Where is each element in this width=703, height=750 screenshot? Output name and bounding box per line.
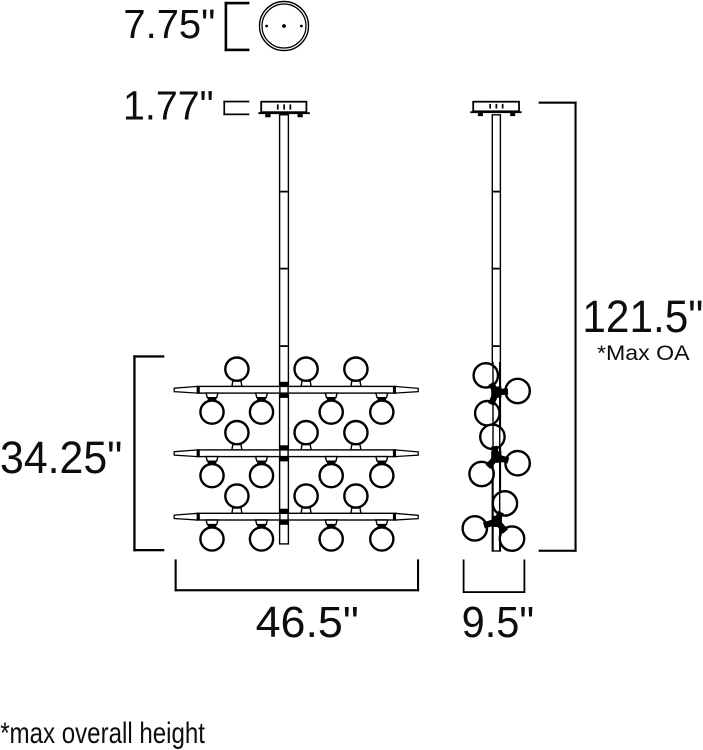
globe above tier 3 #1: [225, 484, 248, 507]
globe socket below tier 1 #2: [256, 393, 268, 398]
side globe cluster 2 #2: [505, 451, 529, 475]
globe below tier 1 #2: [250, 401, 273, 424]
tier bar 2 left divider tick: [197, 450, 200, 457]
side cluster 3 stems: [484, 512, 506, 531]
globe below tier 2 #3: [320, 464, 343, 487]
globe socket below tier 2 #2: [256, 457, 268, 462]
tier bar 3 right divider tick: [393, 513, 396, 520]
tier bar 3 left blade tip: [174, 513, 197, 520]
globe above tier 2 #2: [295, 421, 318, 444]
globe socket below tier 3 #2: [256, 520, 268, 525]
front canopy body: [261, 102, 306, 113]
front stem joint 1: [280, 191, 287, 193]
globe above tier 1 #1: [225, 358, 248, 381]
side globe cluster 1 #3: [475, 401, 499, 425]
side cluster 1 stems: [491, 384, 508, 405]
svg-text:46.5": 46.5": [256, 599, 359, 647]
side stem joint 3: [493, 345, 500, 347]
globe socket above tier 1 #1: [232, 381, 242, 386]
globe below tier 3 #2: [250, 527, 273, 550]
side cluster 1 hub: [491, 387, 501, 398]
globe socket below tier 1 #3: [325, 393, 337, 398]
side globe cluster 1 #1: [474, 363, 498, 387]
dimension bracket 34.25: [133, 355, 164, 551]
side stem joint 2: [493, 268, 500, 270]
globe socket below tier 2 #3: [325, 457, 337, 462]
side canopy vent slots: [489, 104, 503, 109]
front stem rod: [280, 115, 289, 544]
globe socket above tier 3 #2: [301, 508, 311, 513]
dimension line 121.5 max overall: [539, 102, 577, 552]
globe above tier 3 #3: [344, 484, 367, 507]
svg-text:121.5": 121.5": [582, 291, 703, 342]
globe below tier 3 #4: [370, 527, 393, 550]
tier 1 hub block below bar: [280, 393, 288, 398]
side globe cluster 2 #3: [469, 462, 493, 486]
svg-text:*Max OA: *Max OA: [597, 342, 690, 365]
side canopy body: [473, 102, 519, 112]
globe socket above tier 1 #2: [301, 381, 311, 386]
dimension line 46.5: [175, 559, 420, 591]
tier bar 1: [197, 386, 396, 393]
tier bar 1 left divider tick: [197, 386, 200, 393]
svg-text:7.75": 7.75": [123, 1, 215, 47]
canopy mounting hole left: [265, 25, 268, 28]
side stem rod: [492, 115, 500, 551]
front canopy foot right: [298, 114, 303, 117]
svg-text:*max overall height: *max overall height: [0, 717, 205, 750]
globe below tier 1 #3: [320, 401, 343, 424]
front canopy vent slots: [277, 104, 291, 109]
globe below tier 2 #1: [200, 464, 223, 487]
globe below tier 2 #4: [370, 464, 393, 487]
tier bar 1 right blade tip: [395, 386, 418, 393]
globe below tier 3 #3: [320, 527, 343, 550]
tier bar 3: [197, 513, 396, 520]
side globe cluster 3 #3: [500, 526, 524, 550]
tier bar 3 right blade tip: [395, 513, 418, 520]
globe below tier 1 #1: [200, 401, 223, 424]
side cluster 2 stems: [488, 446, 509, 467]
side globe cluster 1 #2: [505, 379, 529, 403]
globe socket above tier 2 #2: [301, 445, 311, 450]
globe socket above tier 3 #3: [351, 508, 361, 513]
tier 2 hub block below bar: [280, 457, 288, 462]
globe above tier 3 #2: [295, 484, 318, 507]
tier 2 hub box: [280, 450, 288, 457]
side globe cluster 3 #2: [463, 516, 487, 540]
svg-text:34.25": 34.25": [0, 432, 122, 483]
tier bar 2 right divider tick: [393, 450, 396, 457]
canopy mounting hole right: [300, 25, 303, 28]
globe socket below tier 3 #3: [325, 520, 337, 525]
globe above tier 1 #2: [295, 358, 318, 381]
front stem joint 3: [280, 345, 287, 347]
tier 2 hub block above bar: [280, 445, 288, 450]
tier bar 3 left divider tick: [197, 513, 200, 520]
svg-text:9.5": 9.5": [462, 599, 534, 647]
side globe cluster 2 #1: [480, 425, 504, 449]
globe below tier 3 #1: [200, 527, 223, 550]
tier bar 2 right blade tip: [395, 450, 418, 457]
front stem joint 2: [280, 268, 287, 270]
tier 3 hub block above bar: [280, 509, 288, 514]
tier bar 1 left blade tip: [174, 386, 197, 393]
side canopy foot left: [478, 113, 483, 116]
globe socket below tier 2 #4: [376, 457, 388, 462]
globe socket below tier 1 #4: [376, 393, 388, 398]
side stem joint 1: [493, 191, 500, 193]
tier 1 hub block above bar: [280, 382, 288, 387]
side rod lines over globes: [493, 362, 500, 551]
globe socket above tier 3 #1: [232, 508, 242, 513]
canopy center hole: [282, 24, 286, 28]
side cluster 3 hub: [492, 516, 502, 527]
tier 3 hub block below bar: [280, 520, 288, 525]
dimension bracket 1.77: [223, 101, 249, 116]
globe socket below tier 2 #1: [206, 457, 218, 462]
tier 3 hub box: [280, 513, 288, 520]
globe above tier 2 #3: [344, 421, 367, 444]
tier bar 2: [197, 450, 396, 457]
front canopy foot left: [265, 114, 270, 117]
globe socket below tier 3 #1: [206, 520, 218, 525]
globe above tier 1 #3: [344, 358, 367, 381]
canopy top view outer ring: [260, 2, 309, 51]
globe socket above tier 2 #1: [232, 445, 242, 450]
dimension bracket 7.75: [225, 2, 250, 51]
globe below tier 2 #2: [250, 464, 273, 487]
tier bar 1 right divider tick: [393, 386, 396, 393]
dimension line 9.5: [463, 560, 526, 594]
globe socket below tier 3 #4: [376, 520, 388, 525]
svg-text:1.77": 1.77": [123, 83, 214, 129]
tier bar 2 left blade tip: [174, 450, 197, 457]
tier 1 hub box: [280, 386, 288, 393]
side canopy flange: [470, 111, 521, 113]
globe above tier 2 #1: [225, 421, 248, 444]
globe below tier 1 #4: [370, 401, 393, 424]
globe socket above tier 1 #3: [351, 381, 361, 386]
side canopy foot right: [510, 113, 515, 116]
side globe cluster 3 #1: [493, 491, 517, 515]
globe socket below tier 1 #1: [206, 393, 218, 398]
globe socket above tier 2 #3: [351, 445, 361, 450]
side cluster 2 hub: [491, 452, 501, 463]
front canopy flange: [258, 112, 309, 114]
canopy top view inner ring: [262, 4, 306, 48]
